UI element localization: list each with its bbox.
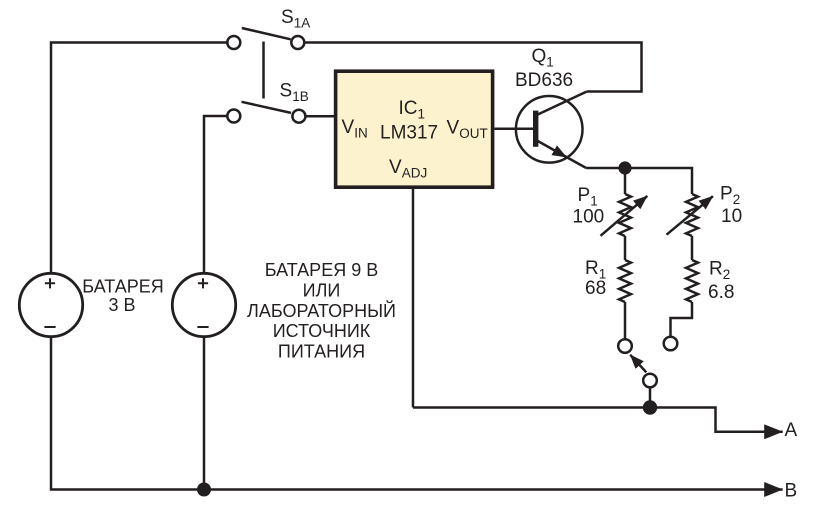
wire: S1A right contact to Q1 collector bend xyxy=(305,43,642,92)
junction: B2 on B rail xyxy=(197,483,211,497)
potentiometer P2 arrow xyxy=(667,196,713,235)
wire: battery B2 top up and over to S1B left contact xyxy=(204,116,227,272)
resistor R1 zigzag xyxy=(619,260,631,302)
resistor R2 zigzag xyxy=(686,260,698,302)
switch S2 range contact (R2 side) xyxy=(664,337,678,351)
svg-text:ПИТАНИЯ: ПИТАНИЯ xyxy=(278,342,365,362)
switch S2 wiper contact xyxy=(643,374,657,388)
battery B1 3V circle xyxy=(19,273,82,336)
switch S1 mechanical gang link xyxy=(262,42,265,99)
switch S1A left contact xyxy=(227,36,240,49)
svg-text:БАТАРЕЯ: БАТАРЕЯ xyxy=(82,277,163,297)
wire: battery B1 top up-left and over to S1A left contact xyxy=(51,43,227,273)
regulator IC1 LM317 body xyxy=(336,71,493,187)
svg-text:Q1: Q1 xyxy=(532,46,554,70)
potentiometer P1 zigzag xyxy=(619,194,631,236)
wire: node A rail to output A with arrow xyxy=(413,408,783,432)
transistor Q1 base bar xyxy=(533,111,538,147)
battery B2 plus sign xyxy=(198,278,208,288)
svg-text:10: 10 xyxy=(721,206,742,227)
potentiometer P1 arrow xyxy=(601,196,648,236)
junction: node A xyxy=(643,400,657,414)
transistor Q1 circle xyxy=(516,96,583,163)
svg-text:S1A: S1A xyxy=(281,7,310,31)
junction: emitter node over P1 xyxy=(618,161,631,174)
switch S1A lever xyxy=(242,28,291,39)
svg-text:P1: P1 xyxy=(578,185,598,209)
wire: P2 to R2 xyxy=(691,236,694,260)
svg-text:A: A xyxy=(785,420,798,441)
wire: IC1 VOUT pin to Q1 base xyxy=(494,127,534,130)
svg-text:100: 100 xyxy=(573,207,605,228)
switch S1B right contact xyxy=(292,110,305,123)
wire: R2 down and jog left to range contact xyxy=(671,302,693,336)
potentiometer P2 zigzag xyxy=(686,194,698,236)
battery B2 circle xyxy=(172,273,235,336)
transistor Q1 collector lead xyxy=(538,92,587,115)
wire: R1 down to range contact xyxy=(624,302,627,339)
svg-text:3 В: 3 В xyxy=(108,295,135,315)
switch S1B left contact xyxy=(227,110,240,123)
wire: P1 to R1 xyxy=(624,236,627,260)
transistor Q1 emitter lead with arrow xyxy=(538,141,567,157)
wire: battery B1 bottom down and along bottom to output B with arrow xyxy=(51,337,783,490)
wire: wiper down to node A xyxy=(649,388,652,408)
svg-text:B: B xyxy=(785,481,798,502)
wire: IC1 VADJ pin down xyxy=(412,187,415,408)
svg-text:ИЛИ: ИЛИ xyxy=(303,280,341,300)
wire: emitter node down to P1 xyxy=(624,168,627,194)
svg-text:БАТАРЕЯ 9 В: БАТАРЕЯ 9 В xyxy=(265,260,378,280)
svg-text:R2: R2 xyxy=(709,259,730,283)
svg-text:LM317: LM317 xyxy=(380,123,438,144)
switch S2 wiper arrow xyxy=(630,355,646,373)
wire: Q1 emitter to P1/P2 top rail xyxy=(586,168,692,194)
wire: battery B2 bottom to B rail xyxy=(203,337,206,490)
svg-text:P2: P2 xyxy=(720,184,740,208)
svg-text:68: 68 xyxy=(585,278,606,299)
battery B1 minus sign xyxy=(44,326,55,328)
wire: S1B right contact to IC1 VIN pin xyxy=(306,115,334,118)
switch S1B lever xyxy=(242,102,292,113)
switch S2 range contact (R1 side) xyxy=(618,339,632,353)
svg-text:6.8: 6.8 xyxy=(708,282,734,303)
battery B2 minus sign xyxy=(197,326,208,328)
switch S1A right contact xyxy=(291,36,304,49)
svg-text:ИСТОЧНИК: ИСТОЧНИК xyxy=(273,321,371,341)
svg-text:BD636: BD636 xyxy=(515,70,573,91)
battery B1 plus sign xyxy=(45,278,55,288)
svg-text:S1B: S1B xyxy=(280,81,309,105)
svg-text:ЛАБОРАТОРНЫЙ: ЛАБОРАТОРНЫЙ xyxy=(247,300,396,321)
